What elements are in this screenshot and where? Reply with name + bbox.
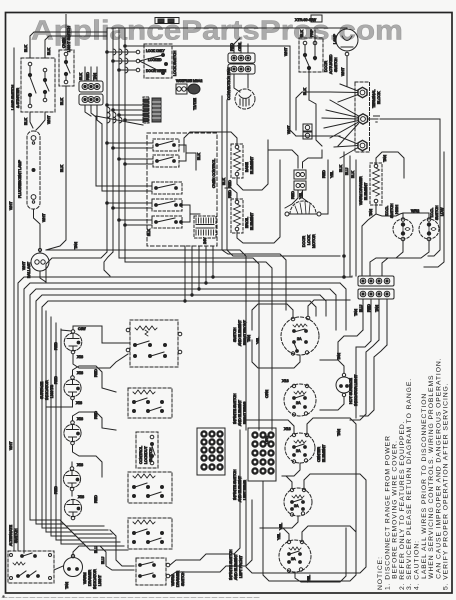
svg-text:1. DISCONNECT RANGE FROM POWER: 1. DISCONNECT RANGE FROM POWER xyxy=(384,435,391,590)
svg-text:CONTROL: CONTROL xyxy=(139,446,143,464)
infinite switch box B4 xyxy=(128,472,172,503)
control lockout switch xyxy=(136,432,158,468)
svg-text:DOOR: DOOR xyxy=(302,236,306,247)
svg-text:BLK: BLK xyxy=(339,165,343,172)
svg-text:CENTER: CENTER xyxy=(317,447,321,462)
svg-text:X18: X18 xyxy=(284,427,290,431)
G_OVENCTRL xyxy=(96,96,334,250)
element switch circle center xyxy=(285,433,315,463)
svg-text:RED: RED xyxy=(228,180,232,188)
svg-text:2A: 2A xyxy=(294,504,299,508)
svg-text:WHT: WHT xyxy=(47,115,51,124)
svg-text:2A: 2A xyxy=(291,557,296,561)
indicator light 1 xyxy=(64,333,82,351)
svg-text:BLK: BLK xyxy=(197,153,201,160)
svg-text:FLUORESCENT LAMP: FLUORESCENT LAMP xyxy=(18,159,22,198)
svg-text:TAN: TAN xyxy=(369,209,373,216)
svg-text:TAN: TAN xyxy=(354,309,358,316)
connector strip W1 xyxy=(358,276,394,286)
svg-text:BLK: BLK xyxy=(79,73,83,80)
wire lamp to ballast xyxy=(34,209,41,252)
connector pins WHT xyxy=(303,124,312,131)
relay K1 xyxy=(153,139,179,151)
lamp switch and starter box xyxy=(21,58,55,112)
wires oven control to bus drops xyxy=(184,246,186,301)
G_LEFT xyxy=(9,32,107,551)
terminal L1 xyxy=(358,87,367,97)
terminal L2 xyxy=(358,140,367,150)
terminal N xyxy=(359,114,368,124)
svg-text:INDICATOR LIGHT: INDICATOR LIGHT xyxy=(354,374,358,406)
right bundle verticals bottom xyxy=(355,470,357,540)
svg-text:AND ELEMENT: AND ELEMENT xyxy=(238,319,242,346)
wires K4 K5 right xyxy=(182,205,190,222)
wires from lamp switch to top bus xyxy=(30,32,107,58)
terminal fan wires L1 xyxy=(330,84,358,102)
svg-text:PRP: PRP xyxy=(310,29,314,37)
wires left front xyxy=(260,528,289,540)
wire element top xyxy=(376,152,404,178)
svg-text:TAN: TAN xyxy=(375,305,379,312)
label box P3 xyxy=(155,18,179,24)
indicator light 5 xyxy=(64,499,81,516)
svg-text:TAN: TAN xyxy=(337,429,341,436)
svg-text:2A: 2A xyxy=(297,337,302,341)
svg-text:RED: RED xyxy=(94,369,98,377)
svg-text:CONVECTION FAN: CONVECTION FAN xyxy=(227,67,231,100)
warm drawer indicator light xyxy=(64,558,83,577)
svg-text:T.O.D.: T.O.D. xyxy=(385,206,389,216)
wire WHT vertical xyxy=(290,46,296,136)
G_WARMDRAWER xyxy=(338,119,444,420)
svg-text:OVEN: OVEN xyxy=(62,37,66,48)
svg-text:AND ELEMENT: AND ELEMENT xyxy=(238,399,242,426)
terminal block xyxy=(355,82,370,152)
element switch circle right front xyxy=(281,317,319,355)
lamp switch contacts xyxy=(28,62,32,66)
grid connector left xyxy=(197,428,225,475)
svg-text:BAKE: BAKE xyxy=(245,162,249,172)
wire element bottom xyxy=(376,203,403,216)
svg-text:WHT: WHT xyxy=(42,213,46,222)
element switch circle right rear xyxy=(284,384,316,416)
EOC connector strip xyxy=(143,97,149,123)
svg-text:X18: X18 xyxy=(282,379,288,383)
terminal fan wires N xyxy=(322,100,359,146)
wires light 3 xyxy=(73,412,117,430)
svg-text:YEL: YEL xyxy=(277,533,281,540)
wire right edge down xyxy=(380,118,440,120)
oven control box xyxy=(147,133,217,246)
svg-text:SWITCH: SWITCH xyxy=(334,57,338,72)
indicator light 3 xyxy=(64,424,81,441)
svg-text:TAN: TAN xyxy=(65,582,69,589)
element switch circle left front xyxy=(279,540,311,572)
svg-text:X18: X18 xyxy=(77,417,83,421)
svg-text:BLU: BLU xyxy=(101,557,105,564)
svg-text:YEL: YEL xyxy=(330,171,334,178)
svg-text:SWITCH: SWITCH xyxy=(14,528,18,543)
svg-text:BLK: BLK xyxy=(24,118,28,125)
top bus wire xyxy=(107,27,347,29)
svg-text:WHT: WHT xyxy=(9,441,13,450)
svg-text:TERMINAL: TERMINAL xyxy=(372,90,376,108)
stair bundle bottom left xyxy=(30,520,104,526)
wires door switch down xyxy=(308,70,310,100)
relay K2 xyxy=(153,155,179,167)
svg-text:X18: X18 xyxy=(77,463,83,467)
connector strip C1 xyxy=(79,81,103,92)
G_BOTTOM xyxy=(8,430,366,589)
scan edge artifact xyxy=(2,597,260,599)
wires TOD down to connector xyxy=(370,241,403,277)
ground xyxy=(368,116,380,122)
wires trunk to relays xyxy=(107,142,153,144)
svg-text:SWITCH: SWITCH xyxy=(233,327,237,342)
svg-text:RED: RED xyxy=(230,43,234,51)
svg-text:RED: RED xyxy=(322,170,326,178)
door lock connector xyxy=(294,170,306,179)
svg-text:YEL: YEL xyxy=(279,523,283,530)
wires connector drop verticals xyxy=(95,116,97,186)
door actuated switch xyxy=(299,38,323,72)
bus B wires xyxy=(18,277,352,551)
wire bottom bus 1 xyxy=(246,481,366,573)
svg-text:LOCK ONLY: LOCK ONLY xyxy=(146,49,165,53)
wires center element xyxy=(246,420,294,433)
svg-text:2. REFER ONLY TO FEATURES EQUI: 2. REFER ONLY TO FEATURES EQUIPPED. xyxy=(399,420,406,590)
broil element xyxy=(231,199,243,233)
svg-text:RIGHT REAR: RIGHT REAR xyxy=(243,401,247,424)
svg-text:T.O.D.: T.O.D. xyxy=(430,208,434,218)
svg-text:SWITCH: SWITCH xyxy=(390,203,394,218)
svg-text:BEFORE REMOVING WIRE COVER.: BEFORE REMOVING WIRE COVER. xyxy=(392,440,399,590)
svg-text:& STARTER: & STARTER xyxy=(16,88,20,108)
relay K5 xyxy=(152,216,182,228)
wire oven light switch up xyxy=(65,15,67,51)
wire bundle mid-left verticals xyxy=(45,311,47,518)
svg-text:WHT: WHT xyxy=(287,125,291,134)
svg-text:LAMP: LAMP xyxy=(333,33,337,44)
G_SURFACE_LEFT xyxy=(40,311,182,549)
svg-text:WHT: WHT xyxy=(9,201,13,210)
svg-text:BLK: BLK xyxy=(222,178,226,185)
bus A wires xyxy=(46,250,246,430)
svg-text:ELEMENT: ELEMENT xyxy=(250,156,254,174)
infinite switch box B5 xyxy=(128,518,172,549)
svg-text:BLU: BLU xyxy=(94,546,98,553)
bottom long wires xyxy=(200,430,240,560)
svg-text:LIGHT SWITCH: LIGHT SWITCH xyxy=(67,26,71,52)
svg-text:TAN: TAN xyxy=(383,155,387,162)
branch wires to lock switch xyxy=(136,50,140,54)
wires to warm drawer switch xyxy=(73,546,134,570)
svg-text:AND ELEMENT: AND ELEMENT xyxy=(234,553,238,580)
svg-text:ALTERNATE: ALTERNATE xyxy=(9,525,13,546)
oven sensor xyxy=(176,84,187,94)
svg-text:NOTICE:: NOTICE: xyxy=(377,556,384,590)
svg-text:RED: RED xyxy=(94,495,98,503)
svg-text:DOOR: DOOR xyxy=(324,61,328,72)
svg-text:MOTOR: MOTOR xyxy=(312,234,316,248)
wires from warm drawer switch right xyxy=(170,560,200,565)
svg-text:OVEN CONTROL: OVEN CONTROL xyxy=(212,159,216,188)
svg-text:BLK: BLK xyxy=(351,171,355,178)
G_NOTICE xyxy=(377,357,450,590)
svg-text:RED: RED xyxy=(291,191,295,199)
G_SURFACE_RIGHT xyxy=(197,300,366,540)
svg-text:YEL: YEL xyxy=(256,337,260,344)
svg-text:BLK: BLK xyxy=(147,229,151,236)
oven lamp xyxy=(336,29,358,51)
svg-text:WARM DRAWER: WARM DRAWER xyxy=(359,176,363,205)
door lock motor xyxy=(290,201,316,214)
svg-text:BLU: BLU xyxy=(359,305,363,312)
svg-text:RED: RED xyxy=(86,72,90,80)
svg-text:TAN: TAN xyxy=(74,242,78,249)
wire bottom bus 2 xyxy=(263,481,356,581)
wire lamp top xyxy=(346,28,348,29)
infinite switch box B2 xyxy=(128,388,172,418)
svg-text:WHT: WHT xyxy=(284,47,288,56)
svg-text:X18: X18 xyxy=(76,401,82,405)
svg-text:RED: RED xyxy=(367,304,371,312)
svg-text:INFINITE SWITCH: INFINITE SWITCH xyxy=(233,469,237,500)
svg-text:W05F135 M3A2: W05F135 M3A2 xyxy=(176,79,202,83)
trunk verticals xyxy=(106,34,108,252)
wire hop bumps on trunk xyxy=(113,49,128,55)
svg-text:3. SERVICER PLEASE RETURN DIAG: 3. SERVICER PLEASE RETURN DIAGRAM TO RAN… xyxy=(406,378,413,590)
wire broil element xyxy=(225,188,237,200)
svg-text:BLOCK: BLOCK xyxy=(377,91,381,104)
svg-text:CAN CAUSE IMPROPER AND DANGERO: CAN CAUSE IMPROPER AND DANGEROUS OPERATI… xyxy=(435,357,442,590)
svg-text:ELEMENT: ELEMENT xyxy=(250,212,254,230)
G_MIDTOP xyxy=(46,15,347,259)
warm drawer switch xyxy=(136,558,166,585)
wire bake element bottom xyxy=(237,140,268,190)
svg-text:X18: X18 xyxy=(77,371,83,375)
svg-text:2A: 2A xyxy=(296,401,301,405)
wires light 1 xyxy=(73,326,130,343)
svg-text:X18: X18 xyxy=(78,495,84,499)
indicator light 4 xyxy=(63,470,80,487)
svg-text:TAN: TAN xyxy=(337,353,341,360)
relay K3 xyxy=(152,182,182,194)
wires door lock xyxy=(268,150,298,168)
transformer T1 xyxy=(194,216,216,238)
wires below connector xyxy=(85,105,91,116)
svg-text:DRAWER: DRAWER xyxy=(176,571,180,587)
svg-text:XTR-30 48W: XTR-30 48W xyxy=(295,18,316,22)
svg-text:BLK: BLK xyxy=(47,48,51,55)
svg-text:BLK: BLK xyxy=(303,88,307,95)
branch wires to EOC xyxy=(107,104,143,106)
convection fan connector strips xyxy=(228,53,255,63)
ballast xyxy=(31,253,49,271)
svg-text:ELEMENT: ELEMENT xyxy=(364,182,368,200)
connector strip W2 xyxy=(358,289,394,299)
wire left long vertical WHT xyxy=(13,48,15,551)
svg-text:TAN: TAN xyxy=(247,335,251,342)
svg-text:BLK: BLK xyxy=(60,98,64,105)
wires light 4 xyxy=(71,462,73,467)
svg-text:INDICATOR: INDICATOR xyxy=(93,569,97,589)
wire right of control down xyxy=(221,96,223,250)
wire ballast to bus xyxy=(40,271,46,282)
wires right top bundle corner xyxy=(296,135,340,137)
svg-text:T1/T2E: T1/T2E xyxy=(193,98,197,110)
svg-text:4. CAUTION:: 4. CAUTION: xyxy=(414,540,421,590)
svg-text:BLK: BLK xyxy=(60,165,64,172)
svg-text:LOCK SWITCH: LOCK SWITCH xyxy=(173,50,177,76)
svg-text:SWITCH: SWITCH xyxy=(181,571,185,586)
svg-text:ORN: ORN xyxy=(265,436,269,444)
G_BUS xyxy=(18,242,352,553)
wire oven light switch down xyxy=(46,86,66,250)
warm drawer element xyxy=(370,163,382,205)
terminal fan wires L2 xyxy=(334,136,358,158)
svg-text:LABEL ALL WIRES PRIOR TO DISCO: LABEL ALL WIRES PRIOR TO DISCONNECTION xyxy=(421,393,428,590)
wire TOD tops bridge xyxy=(403,213,429,218)
svg-text:BROIL: BROIL xyxy=(245,217,249,228)
svg-text:ACTUATED: ACTUATED xyxy=(329,54,333,74)
svg-text:WHT: WHT xyxy=(341,67,345,76)
svg-text:5. VERIFY PROPER OPERATION AFT: 5. VERIFY PROPER OPERATION AFTER SERVICI… xyxy=(443,382,450,590)
svg-text:WR2: WR2 xyxy=(411,209,419,213)
svg-text:LOW: LOW xyxy=(440,207,444,216)
svg-text:WARM: WARM xyxy=(83,573,87,584)
svg-text:X18: X18 xyxy=(77,355,83,359)
connector strip C2 xyxy=(79,94,103,105)
svg-text:BLU: BLU xyxy=(345,168,349,175)
bus B right drops xyxy=(351,276,353,277)
svg-text:ELEMENT: ELEMENT xyxy=(322,444,326,462)
svg-text:RED: RED xyxy=(228,190,232,198)
svg-text:SWITCH: SWITCH xyxy=(435,205,439,220)
svg-text:INFINITE SWITCH: INFINITE SWITCH xyxy=(233,393,237,424)
svg-text:WHEN SERVICING CONTROLS. WIRIN: WHEN SERVICING CONTROLS. WIRING PROBLEMS xyxy=(428,375,435,590)
wire lamp switch to fluorescent lamp xyxy=(30,112,33,128)
G_RIGHTTOP xyxy=(284,28,381,158)
wires BLK BLU BLK bundle xyxy=(343,152,345,276)
svg-text:WHT: WHT xyxy=(22,261,26,270)
wires right mid verticals xyxy=(338,330,363,360)
svg-text:24V: 24V xyxy=(203,237,207,244)
lock switch box xyxy=(144,44,172,78)
wire relay K1 K2 common xyxy=(179,145,186,161)
wire lamp down to terminal xyxy=(346,56,348,86)
svg-text:LIGHT: LIGHT xyxy=(98,575,102,586)
svg-text:TAN: TAN xyxy=(93,73,97,80)
infinite switch box B1 xyxy=(130,320,178,367)
svg-text:BLK: BLK xyxy=(24,45,28,52)
wires left rear xyxy=(282,476,292,488)
svg-text:BALLAST: BALLAST xyxy=(27,261,31,278)
svg-text:BLK: BLK xyxy=(300,30,304,37)
svg-text:2A: 2A xyxy=(296,449,301,453)
wires fan connector up xyxy=(234,38,240,53)
svg-text:AND ELEMENT: AND ELEMENT xyxy=(238,475,242,502)
element switch circle left rear xyxy=(284,488,312,516)
svg-text:DRAWER: DRAWER xyxy=(88,570,92,586)
indicator light 2 xyxy=(64,379,81,396)
wires light 2 xyxy=(73,366,117,392)
svg-text:ORN: ORN xyxy=(265,390,269,398)
EOC body hatched xyxy=(152,98,161,122)
relay K4 xyxy=(152,199,182,211)
svg-text:LOCKOUT: LOCKOUT xyxy=(144,446,148,464)
svg-text:C3W: C3W xyxy=(78,327,86,331)
grid connector right xyxy=(248,428,276,481)
wire bake element top xyxy=(184,132,237,152)
svg-text:SURFACE: SURFACE xyxy=(40,381,44,399)
svg-text:HIGH: HIGH xyxy=(395,205,399,214)
wires below connector xyxy=(362,299,364,330)
svg-text:WARM: WARM xyxy=(171,575,175,586)
wires fan connector to motor xyxy=(234,74,240,92)
svg-text:LOCK: LOCK xyxy=(307,234,311,245)
fluorescent lamp xyxy=(27,131,40,209)
bake element xyxy=(231,144,243,178)
